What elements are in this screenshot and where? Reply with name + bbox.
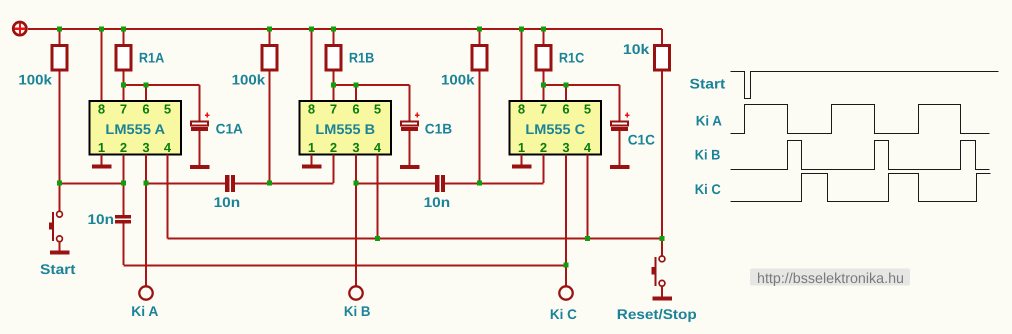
svg-text:5: 5: [164, 102, 171, 117]
svg-text:10k: 10k: [623, 41, 650, 57]
svg-text:3: 3: [562, 140, 569, 155]
svg-text:2: 2: [540, 140, 547, 155]
svg-text:C1B: C1B: [425, 121, 452, 137]
svg-text:10n: 10n: [88, 211, 115, 227]
svg-text:Start: Start: [40, 261, 76, 277]
svg-text:4: 4: [164, 140, 172, 155]
svg-text:C1A: C1A: [216, 121, 243, 137]
svg-text:100k: 100k: [441, 72, 475, 88]
svg-text:1: 1: [98, 140, 105, 155]
svg-text:2: 2: [120, 140, 127, 155]
svg-text:100k: 100k: [18, 72, 52, 88]
svg-text:4: 4: [584, 140, 592, 155]
svg-text:Ki B: Ki B: [344, 303, 371, 319]
svg-text:3: 3: [352, 140, 359, 155]
svg-text:Ki A: Ki A: [696, 113, 722, 129]
svg-text:Ki A: Ki A: [131, 303, 158, 319]
svg-text:6: 6: [562, 102, 569, 117]
svg-text:10n: 10n: [214, 194, 241, 210]
svg-text:6: 6: [142, 102, 149, 117]
svg-text:4: 4: [374, 140, 382, 155]
svg-text:8: 8: [98, 102, 105, 117]
svg-text:1: 1: [518, 140, 525, 155]
svg-text:Start: Start: [690, 76, 726, 92]
svg-text:LM555 A: LM555 A: [105, 121, 165, 137]
svg-text:5: 5: [584, 102, 591, 117]
svg-text:6: 6: [352, 102, 359, 117]
svg-text:Ki C: Ki C: [695, 181, 721, 197]
svg-text:LM555 B: LM555 B: [315, 121, 375, 137]
svg-text:7: 7: [540, 102, 547, 117]
svg-text:http://bsselektronika.hu: http://bsselektronika.hu: [757, 271, 904, 287]
svg-text:10n: 10n: [424, 194, 451, 210]
svg-text:100k: 100k: [232, 72, 266, 88]
svg-text:Ki C: Ki C: [550, 306, 577, 322]
svg-text:2: 2: [330, 140, 337, 155]
svg-text:C1C: C1C: [628, 132, 655, 148]
svg-text:3: 3: [142, 140, 149, 155]
svg-text:8: 8: [518, 102, 525, 117]
svg-text:8: 8: [308, 102, 315, 117]
svg-text:1: 1: [308, 140, 315, 155]
svg-text:7: 7: [120, 102, 127, 117]
svg-text:7: 7: [330, 102, 337, 117]
svg-text:Reset/Stop: Reset/Stop: [617, 306, 697, 322]
svg-text:Ki B: Ki B: [695, 147, 721, 163]
svg-text:5: 5: [374, 102, 381, 117]
svg-text:R1C: R1C: [559, 50, 584, 66]
svg-text:LM555 C: LM555 C: [525, 121, 585, 137]
svg-text:R1B: R1B: [349, 50, 374, 66]
svg-text:R1A: R1A: [139, 50, 164, 66]
